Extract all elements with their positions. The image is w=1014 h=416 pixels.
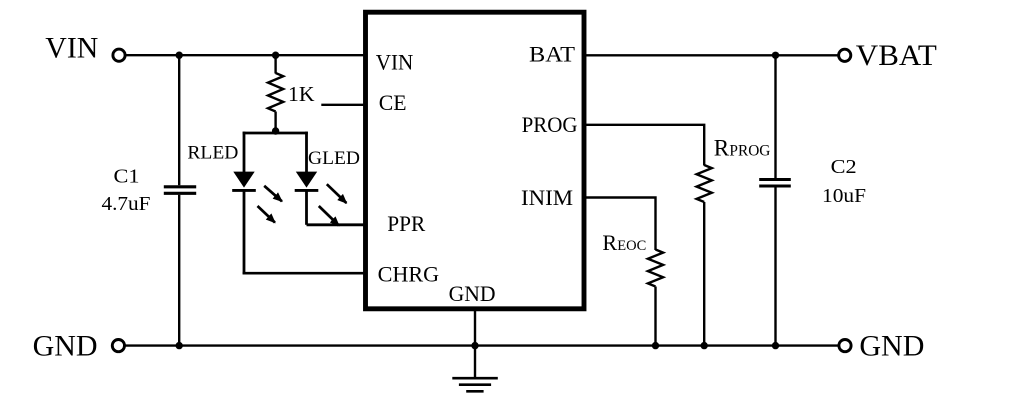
terminal VBAT: [839, 49, 851, 61]
wire VIN rail: [126, 54, 366, 56]
svg-text:PROG: PROG: [522, 112, 578, 137]
svg-text:CHRG: CHRG: [378, 262, 440, 287]
svg-text:GLED: GLED: [308, 148, 360, 169]
svg-text:4.7uF: 4.7uF: [102, 193, 151, 215]
wire REOC to GND rail: [654, 287, 656, 346]
junction dot GND/C2: [772, 342, 779, 349]
junction dot GND/C1: [176, 342, 183, 349]
junction dot VIN/C1: [176, 52, 183, 59]
junction dot VIN/1K: [272, 52, 279, 59]
resistor REOC: [648, 250, 663, 287]
svg-text:R: R: [714, 136, 730, 161]
svg-text:GND: GND: [859, 329, 924, 362]
resistor R1 1K: [268, 55, 283, 133]
svg-text:10uF: 10uF: [822, 185, 866, 207]
svg-text:RLED: RLED: [187, 143, 238, 164]
svg-text:VBAT: VBAT: [856, 39, 937, 72]
terminal GND left: [112, 340, 124, 352]
junction dot GND/IC: [471, 342, 478, 349]
junction dot GND/RPROG: [701, 342, 708, 349]
wire CE stub: [321, 104, 365, 106]
svg-text:GND: GND: [449, 281, 496, 306]
svg-text:CE: CE: [379, 90, 407, 115]
ground symbol: [452, 378, 498, 391]
resistor RPROG: [697, 165, 712, 202]
svg-text:R: R: [602, 230, 617, 255]
svg-text:INIM: INIM: [521, 185, 573, 210]
svg-text:VIN: VIN: [45, 32, 98, 65]
capacitor C2: [759, 55, 791, 345]
wire RPROG to GND rail: [703, 202, 705, 346]
wire GND rail: [125, 344, 838, 346]
svg-text:1K: 1K: [288, 82, 315, 106]
wire PROG: [584, 125, 704, 166]
junction dot GND/REOC: [652, 342, 659, 349]
wire PPR: [307, 223, 366, 226]
IC U1 charger: [366, 12, 585, 309]
terminal GND right: [839, 340, 851, 352]
svg-text:PROG: PROG: [729, 143, 770, 160]
svg-text:PPR: PPR: [387, 211, 425, 236]
wire INIM: [584, 198, 656, 251]
emission arrows GLED: [319, 184, 347, 225]
capacitor C1: [164, 55, 196, 345]
svg-text:GND: GND: [33, 329, 98, 362]
terminal VIN: [113, 49, 125, 61]
wire BAT rail: [584, 54, 838, 56]
svg-text:C1: C1: [114, 166, 140, 188]
wire CHRG: [243, 272, 366, 275]
junction dot 1K/LED bracket: [272, 127, 279, 134]
svg-text:EOC: EOC: [617, 238, 646, 254]
svg-text:C2: C2: [831, 156, 857, 178]
junction dot BAT/C2: [772, 52, 779, 59]
emission arrows RLED: [258, 186, 282, 223]
svg-text:VIN: VIN: [376, 50, 414, 75]
wire LED bracket: [243, 132, 308, 135]
LED GLED: [295, 132, 319, 225]
LED RLED: [232, 132, 256, 275]
wire IC GND pin: [474, 311, 476, 378]
svg-text:BAT: BAT: [529, 42, 576, 67]
